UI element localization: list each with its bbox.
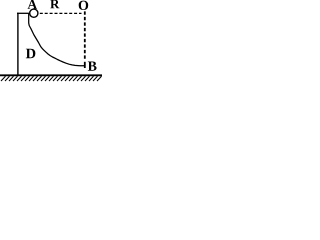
ground line (0, 74, 102, 76)
label D (26, 49, 36, 59)
ground hatching (1, 76, 102, 81)
table top line (17, 12, 30, 14)
label O (79, 1, 89, 10)
dashed radius line A to O (40, 12, 82, 14)
dashed vertical line O to B (84, 11, 86, 59)
label A (28, 0, 38, 9)
wall (left vertical line) (17, 13, 19, 76)
label B (88, 62, 97, 71)
label R (50, 0, 59, 8)
end tick at B (84, 62, 86, 68)
ball at A (30, 9, 38, 17)
background (0, 0, 102, 83)
curve track A to B (29, 14, 85, 66)
